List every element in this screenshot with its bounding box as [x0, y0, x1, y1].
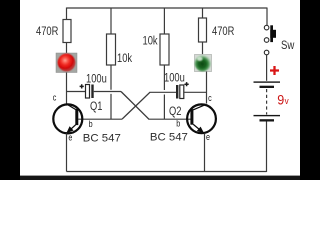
resistor R3 10k [160, 34, 169, 65]
wire battery to bottom rail [266, 122, 268, 173]
wire top rail to R1 [66, 8, 68, 20]
wire LED2 to Q2 collector [206, 72, 208, 104]
capacitor C2 positive plate [180, 85, 184, 99]
wire Q2 emitter to bottom rail [204, 133, 206, 171]
battery cell 2 long plate [254, 115, 281, 116]
switch Sw lever body [270, 25, 273, 42]
transistor Q1 base bar [75, 109, 78, 125]
wire diagonal A (C1 to Q2 base) [121, 92, 149, 120]
svg-text:Q2: Q2 [169, 105, 181, 118]
resistor R2 10k [107, 34, 116, 65]
transistor Q1 collector diagonal [66, 104, 75, 110]
svg-text:e: e [68, 133, 72, 143]
wire top rail to switch [266, 8, 268, 26]
plus sign C2 [185, 82, 189, 86]
wire Q1 emitter to bottom rail [66, 133, 68, 171]
wire R1 to LED1 [66, 43, 68, 54]
wire top rail to R3 [163, 8, 165, 35]
svg-text:10k: 10k [117, 52, 133, 65]
wire top rail to R2 [110, 8, 112, 35]
transistor Q2 emitter diagonal [193, 124, 204, 133]
transistor Q2 base bar [190, 109, 193, 125]
transistor Q1 emitter arrow [66, 126, 73, 133]
svg-text:Sw: Sw [281, 39, 294, 52]
battery plus sign (red) [270, 66, 279, 75]
transistor Q2 collector diagonal [193, 104, 206, 110]
wire Q1 collector to C1 (node) [67, 91, 86, 93]
svg-text:b: b [176, 119, 180, 129]
bottom dark band [0, 176, 320, 180]
svg-text:9: 9 [277, 92, 284, 108]
svg-text:e: e [206, 132, 210, 142]
transistor Q1 circle [53, 104, 82, 133]
wire top rail to R4 [202, 8, 204, 19]
wire bottom rail (0V) [67, 171, 267, 173]
wire C1 to crossover diagonal A [94, 91, 121, 93]
wire R2 to Q1 base (crossover gap at cap wire) [110, 65, 112, 119]
wire switch to battery [266, 55, 268, 81]
resistor R1 470R [63, 20, 71, 43]
svg-text:c: c [208, 93, 212, 103]
svg-text:100u: 100u [86, 72, 107, 85]
transistor Q1 emitter diagonal [66, 125, 75, 134]
battery cell 1 long plate [254, 81, 281, 82]
svg-text:470R: 470R [212, 25, 235, 38]
switch Sw terminal 2 [264, 38, 269, 43]
capacitor C1 negative plate [91, 85, 93, 99]
svg-text:b: b [89, 119, 93, 129]
wire LED1 to Q1 collector [66, 73, 68, 104]
right pillarbox bar [300, 0, 320, 180]
transistor Q2 emitter arrow [197, 127, 204, 134]
left pillarbox bar [0, 0, 20, 180]
transistor Q2 circle [187, 104, 216, 133]
LED D2 green indicator [194, 55, 211, 72]
switch Sw terminal 3 [264, 50, 269, 55]
svg-text:470R: 470R [36, 25, 59, 38]
svg-text:Q1: Q1 [90, 100, 102, 113]
LED D1 red indicator [56, 53, 77, 73]
svg-text:100u: 100u [164, 72, 185, 85]
wire R3 to Q2 base (crossover gap at cap wire) [163, 65, 165, 119]
battery cell 2 short plate [260, 119, 275, 121]
svg-text:BC 547: BC 547 [150, 132, 188, 144]
switch Sw terminal 1 [264, 25, 269, 30]
wire Q1 base horizontal [78, 118, 122, 120]
wire top rail (+9V) [67, 7, 268, 9]
resistor R4 470R [199, 18, 207, 42]
battery mid dashed wire [266, 89, 268, 115]
wire R4 to LED2 [202, 42, 204, 55]
plus sign C1 [80, 84, 84, 88]
wire diagonal B (Q1 base to C2) [122, 92, 150, 119]
svg-text:v: v [285, 96, 290, 107]
capacitor C1 100u positive plate [86, 85, 90, 99]
svg-text:BC 547: BC 547 [83, 133, 121, 145]
wire C2 to Q2 collector node [184, 91, 206, 93]
capacitor C2 100u negative plate [176, 85, 178, 99]
svg-text:10k: 10k [143, 34, 159, 47]
svg-text:c: c [53, 93, 57, 103]
battery cell 1 short plate [260, 86, 275, 88]
